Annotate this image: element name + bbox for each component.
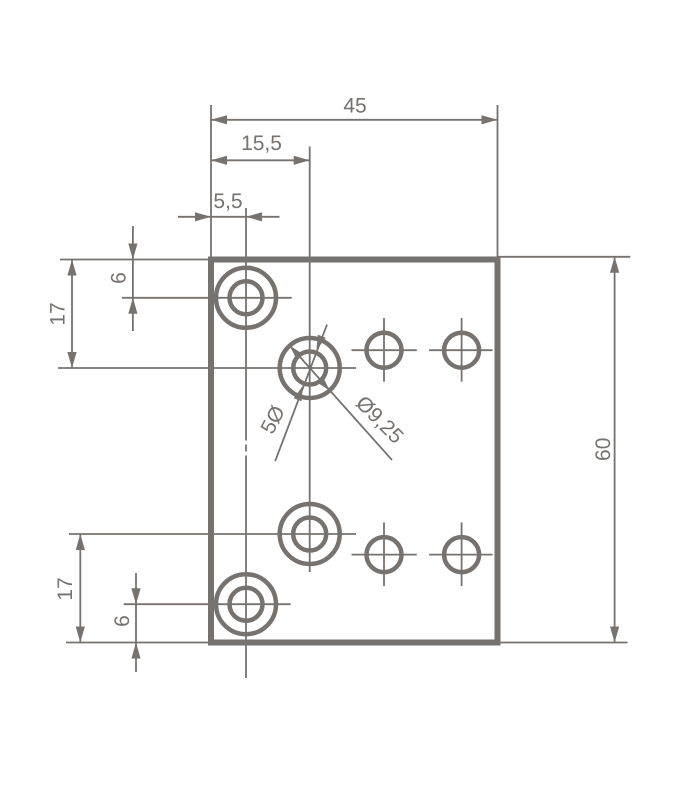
centerline column left holes <box>245 208 247 678</box>
extension line plate bottom right <box>498 642 628 644</box>
small hole S2 upper-right <box>429 318 492 382</box>
leader 5 dia label <box>257 402 290 438</box>
hole H1 top-left counterbore <box>216 268 276 328</box>
dimension 17 upper label <box>46 302 69 325</box>
svg-text:17: 17 <box>54 577 77 600</box>
hole H4 bottom-left counterbore <box>216 574 276 634</box>
centerline hole H4 horizontal <box>124 603 291 605</box>
dimension 5,5 line <box>178 212 280 221</box>
dimension 45 label <box>343 95 366 118</box>
hole H2 center counterbore <box>280 338 340 398</box>
centerline hole H2 horizontal <box>58 367 356 369</box>
dimension 45 line <box>211 115 498 124</box>
svg-text:5Ø: 5Ø <box>257 402 290 438</box>
dimension 17 lower label <box>54 577 77 600</box>
extension line right (45) <box>497 105 499 257</box>
dimension 17 lower line <box>76 534 85 643</box>
extension line plate top right <box>498 256 631 258</box>
leader dia 9,25 label <box>351 392 408 449</box>
dimension 60 label <box>592 438 615 461</box>
dimension 6 lower line <box>131 573 140 672</box>
small hole S3 lower-left <box>352 522 417 586</box>
extension line left (45/15,5) <box>210 105 212 257</box>
svg-text:45: 45 <box>343 95 366 118</box>
dimension 6 upper label <box>108 272 131 284</box>
extension line plate bottom left <box>66 642 211 644</box>
svg-text:5,5: 5,5 <box>213 190 242 213</box>
dimension 5,5 label <box>213 190 242 213</box>
svg-text:17: 17 <box>46 302 69 325</box>
dimension 15,5 line <box>211 156 310 165</box>
leader line dia 9,25 <box>290 346 392 460</box>
svg-text:Ø9,25: Ø9,25 <box>351 392 408 449</box>
svg-text:6: 6 <box>108 272 131 284</box>
dimension 6 upper line <box>128 226 137 331</box>
svg-text:6: 6 <box>111 615 134 627</box>
dimension 60 line <box>610 257 619 643</box>
dimension 6 lower label <box>111 615 134 627</box>
plate outline <box>211 260 498 643</box>
hole H3 lower-center counterbore <box>280 504 340 564</box>
small hole S4 lower-right <box>429 522 492 586</box>
centerline hole H1 horizontal <box>122 297 292 299</box>
centerline hole H3 horizontal <box>69 533 356 535</box>
centerline column center holes <box>309 147 311 573</box>
leader line 5 dia <box>275 325 327 462</box>
svg-text:15,5: 15,5 <box>241 132 282 155</box>
extension line plate top left <box>60 259 211 261</box>
dimension 17 upper line <box>67 260 76 369</box>
small hole S1 upper-left <box>352 318 417 382</box>
svg-text:60: 60 <box>592 438 615 461</box>
dimension 15,5 label <box>241 132 282 155</box>
